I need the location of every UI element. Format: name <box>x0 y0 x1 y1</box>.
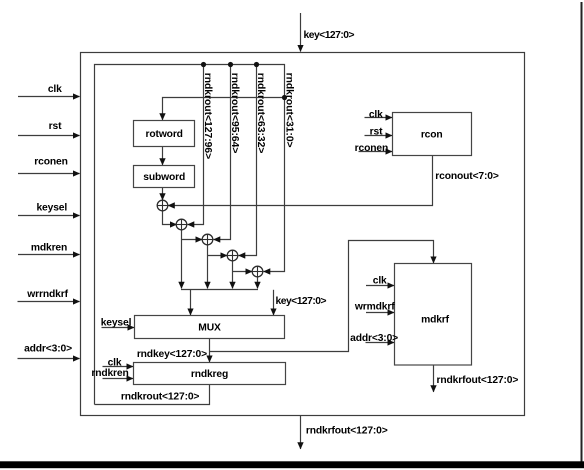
svg-text:rndkrout<127:0>: rndkrout<127:0> <box>121 392 200 403</box>
svg-text:clk: clk <box>369 109 383 120</box>
svg-text:mdkren: mdkren <box>31 243 67 254</box>
svg-text:keysel: keysel <box>36 203 67 214</box>
svg-text:addr<3:0>: addr<3:0> <box>24 343 72 354</box>
svg-text:key<127:0>: key<127:0> <box>304 30 355 41</box>
svg-text:keysel: keysel <box>101 317 132 328</box>
svg-text:rconen: rconen <box>34 157 67 168</box>
svg-text:rst: rst <box>49 121 62 132</box>
svg-text:wrmdkrf: wrmdkrf <box>354 301 395 312</box>
svg-text:rconen: rconen <box>355 143 388 154</box>
svg-text:mdkrf: mdkrf <box>421 315 450 326</box>
svg-text:rndkey<127:0>: rndkey<127:0> <box>137 349 207 360</box>
svg-text:subword: subword <box>143 172 185 183</box>
svg-text:rndkrout<31:0>: rndkrout<31:0> <box>284 73 295 148</box>
svg-text:rndkren: rndkren <box>91 368 128 379</box>
svg-text:rcon: rcon <box>421 129 443 140</box>
svg-text:rndkrfout<127:0>: rndkrfout<127:0> <box>306 426 388 437</box>
svg-text:clk: clk <box>108 358 122 369</box>
svg-text:rndkrfout<127:0>: rndkrfout<127:0> <box>437 375 519 386</box>
svg-text:rndkrout<63:32>: rndkrout<63:32> <box>255 73 266 154</box>
svg-text:rst: rst <box>370 127 383 138</box>
svg-text:key<127:0>: key<127:0> <box>276 296 327 307</box>
svg-text:clk: clk <box>373 276 387 287</box>
svg-text:wrrndkrf: wrrndkrf <box>26 289 68 300</box>
svg-text:rotword: rotword <box>146 129 183 140</box>
svg-text:MUX: MUX <box>198 323 221 334</box>
svg-text:rconout<7:0>: rconout<7:0> <box>435 171 499 182</box>
svg-text:rndkreg: rndkreg <box>191 369 228 380</box>
svg-text:addr<3:0>: addr<3:0> <box>350 333 398 344</box>
svg-text:rndkrout<127:96>: rndkrout<127:96> <box>202 73 213 159</box>
svg-text:clk: clk <box>48 84 62 95</box>
svg-text:rndkrout<95:64>: rndkrout<95:64> <box>229 73 240 154</box>
